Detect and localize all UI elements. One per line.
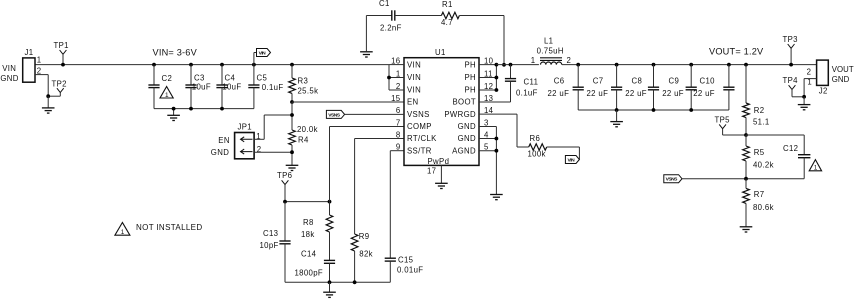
svg-text:22 uF: 22 uF bbox=[693, 89, 715, 98]
wire input cap ground rail bbox=[154, 108, 254, 110]
svg-text:SS/TR: SS/TR bbox=[407, 146, 432, 155]
svg-text:COMP: COMP bbox=[407, 122, 432, 131]
svg-text:8: 8 bbox=[396, 130, 401, 139]
svg-text:TP3: TP3 bbox=[783, 35, 798, 44]
svg-text:20.0k: 20.0k bbox=[297, 125, 318, 134]
connector J1 bbox=[23, 58, 35, 82]
svg-text:VOUT= 1.2V: VOUT= 1.2V bbox=[709, 47, 764, 57]
svg-text:GND: GND bbox=[0, 74, 18, 83]
resistor R4 bbox=[291, 102, 293, 130]
capacitor C8 bbox=[652, 63, 656, 67]
connector J2 bbox=[817, 60, 829, 85]
svg-text:1: 1 bbox=[121, 229, 125, 236]
svg-text:VIN: VIN bbox=[259, 50, 267, 56]
svg-text:3: 3 bbox=[484, 118, 489, 127]
net flag VIN at C5 bbox=[253, 53, 255, 65]
svg-text:0.1uF: 0.1uF bbox=[262, 83, 284, 92]
svg-text:R7: R7 bbox=[754, 190, 765, 199]
U1 GND pin stubs 3 4 5 bbox=[479, 126, 496, 128]
svg-text:VOUT: VOUT bbox=[832, 65, 854, 74]
resistor R1 bbox=[441, 12, 459, 18]
svg-text:VIN: VIN bbox=[407, 61, 421, 70]
svg-text:GND: GND bbox=[832, 75, 850, 84]
svg-text:1800pF: 1800pF bbox=[295, 269, 324, 278]
svg-text:C12: C12 bbox=[783, 144, 798, 153]
svg-text:40.2k: 40.2k bbox=[753, 161, 774, 170]
capacitor C13 bbox=[284, 202, 286, 241]
svg-text:R1: R1 bbox=[442, 0, 453, 9]
resistor R7 bbox=[745, 179, 747, 189]
svg-text:10uF: 10uF bbox=[222, 83, 241, 92]
svg-text:15: 15 bbox=[391, 94, 401, 103]
svg-text:VSNS: VSNS bbox=[407, 110, 430, 119]
wire PH node to L1 bbox=[496, 64, 539, 66]
resistor R2 bbox=[744, 63, 748, 67]
capacitor C11 boot bbox=[509, 63, 513, 67]
svg-text:JP1: JP1 bbox=[238, 122, 253, 131]
capacitor C10 bbox=[727, 63, 731, 67]
svg-text:4: 4 bbox=[484, 130, 489, 139]
svg-text:C10: C10 bbox=[700, 76, 716, 85]
svg-text:C11: C11 bbox=[524, 77, 539, 86]
wire COMP pin 7 to R8 bbox=[330, 126, 405, 128]
svg-text:22 uF: 22 uF bbox=[625, 89, 647, 98]
svg-text:1: 1 bbox=[37, 56, 42, 65]
svg-text:RT/CLK: RT/CLK bbox=[407, 134, 437, 143]
svg-text:0.01uF: 0.01uF bbox=[397, 266, 423, 275]
wire TP6 to R8 top bbox=[285, 201, 330, 203]
wire JP1 pin 1 to EN node bbox=[254, 138, 264, 140]
svg-text:17: 17 bbox=[427, 166, 436, 175]
svg-text:2: 2 bbox=[567, 56, 572, 65]
note triangle 1 at C12 bbox=[809, 160, 821, 171]
capacitor C9 bbox=[689, 63, 693, 67]
ground at C1 bbox=[360, 51, 373, 53]
note triangle 1 NOT INSTALLED bbox=[115, 223, 130, 236]
svg-text:10pF: 10pF bbox=[260, 241, 279, 250]
svg-text:VIN: VIN bbox=[567, 157, 575, 163]
svg-text:C7: C7 bbox=[593, 76, 604, 85]
svg-text:GND: GND bbox=[458, 122, 476, 131]
capacitor C3 bbox=[189, 63, 193, 67]
wire EN net to pin 15 bbox=[290, 100, 294, 104]
ground at input caps bbox=[173, 109, 175, 116]
svg-text:25.5k: 25.5k bbox=[298, 86, 319, 95]
net flag VSNS at pin 6 bbox=[326, 110, 344, 118]
wire ground to C1 bbox=[365, 16, 367, 52]
wire J2 pin 1 to ground bbox=[804, 78, 817, 80]
svg-text:VSNS: VSNS bbox=[666, 177, 679, 183]
svg-text:9: 9 bbox=[396, 143, 401, 152]
svg-text:TP4: TP4 bbox=[783, 76, 799, 85]
svg-text:VIN= 3-6V: VIN= 3-6V bbox=[153, 48, 198, 58]
svg-text:R8: R8 bbox=[303, 218, 314, 227]
svg-text:7: 7 bbox=[396, 118, 401, 127]
svg-text:L1: L1 bbox=[544, 37, 553, 46]
svg-text:R5: R5 bbox=[754, 148, 765, 157]
capacitor C4 bbox=[220, 63, 224, 67]
svg-text:C5: C5 bbox=[257, 73, 268, 82]
ground below R7 bbox=[740, 226, 753, 228]
arrow JP1 pin 2 bbox=[241, 149, 253, 154]
svg-text:C4: C4 bbox=[225, 73, 236, 82]
svg-text:C1: C1 bbox=[379, 0, 390, 8]
capacitor C5 bbox=[252, 63, 256, 67]
svg-text:EN: EN bbox=[218, 136, 230, 145]
U1 left pin stubs VIN 16 1 2 bbox=[388, 65, 390, 90]
svg-text:PH: PH bbox=[464, 73, 476, 82]
svg-text:0.1uF: 0.1uF bbox=[516, 88, 538, 97]
svg-text:U1: U1 bbox=[435, 48, 446, 57]
svg-text:R3: R3 bbox=[298, 76, 309, 85]
svg-text:10uF: 10uF bbox=[192, 83, 211, 92]
svg-text:22 uF: 22 uF bbox=[587, 89, 609, 98]
svg-text:VIN: VIN bbox=[407, 73, 421, 82]
svg-text:AGND: AGND bbox=[452, 146, 476, 155]
svg-text:14: 14 bbox=[484, 106, 494, 115]
ground at output caps bbox=[616, 110, 618, 122]
wire VSNS flag to divider node bbox=[682, 178, 746, 180]
ground at J2 bbox=[803, 97, 805, 105]
note triangle 1 at C2 bbox=[160, 87, 173, 99]
resistor R8 bbox=[329, 202, 331, 215]
svg-text:13: 13 bbox=[484, 94, 493, 103]
svg-text:5: 5 bbox=[484, 143, 489, 152]
svg-text:R2: R2 bbox=[754, 106, 765, 115]
resistor R3 bbox=[290, 63, 294, 67]
svg-text:VSNS: VSNS bbox=[328, 112, 341, 118]
svg-text:2: 2 bbox=[396, 82, 401, 91]
capacitor C6 bbox=[576, 63, 580, 67]
svg-text:TP5: TP5 bbox=[715, 116, 731, 125]
wire VOUT rail from L1 to J2 bbox=[562, 64, 817, 66]
svg-text:J2: J2 bbox=[819, 87, 828, 96]
svg-text:C14: C14 bbox=[301, 249, 317, 258]
wire PwPd pin 17 bbox=[440, 165, 442, 183]
svg-text:C9: C9 bbox=[669, 76, 680, 85]
svg-text:1: 1 bbox=[396, 69, 401, 78]
wire SS/TR pin 9 to C15 bbox=[390, 150, 404, 152]
ground at U1 GND pins bbox=[490, 194, 503, 196]
arrow JP1 pin 1 bbox=[241, 137, 253, 142]
svg-text:R6: R6 bbox=[530, 134, 541, 143]
svg-text:1: 1 bbox=[531, 56, 536, 65]
capacitor C2 (not installed) bbox=[152, 63, 156, 67]
svg-text:R4: R4 bbox=[298, 135, 309, 144]
svg-text:PWRGD: PWRGD bbox=[444, 110, 476, 119]
svg-text:82k: 82k bbox=[359, 249, 373, 258]
svg-text:GND: GND bbox=[211, 148, 229, 157]
svg-text:C13: C13 bbox=[263, 229, 278, 238]
wire VSNS flag to pin 6 bbox=[345, 113, 404, 115]
wire VIN rail from J1 to U1 bbox=[35, 64, 389, 66]
svg-text:NOT INSTALLED: NOT INSTALLED bbox=[136, 223, 203, 232]
svg-text:C15: C15 bbox=[398, 256, 414, 265]
svg-text:0.75uH: 0.75uH bbox=[537, 46, 564, 55]
wire J1 pin 2 to ground bbox=[35, 74, 48, 76]
resistor R6 bbox=[529, 144, 547, 150]
jumper JP1 bbox=[235, 133, 255, 159]
svg-text:R9: R9 bbox=[359, 232, 370, 241]
svg-text:6: 6 bbox=[396, 106, 401, 115]
ground at PwPd bbox=[435, 182, 448, 184]
svg-text:TP1: TP1 bbox=[54, 41, 69, 50]
svg-text:4.7: 4.7 bbox=[441, 18, 453, 27]
svg-text:GND: GND bbox=[458, 134, 476, 143]
capacitor C15 bbox=[385, 257, 396, 259]
capacitor C12 (not installed) bbox=[746, 134, 804, 136]
wire R1 to PH node bbox=[459, 15, 504, 17]
svg-text:PH: PH bbox=[464, 61, 476, 70]
svg-text:2: 2 bbox=[257, 145, 262, 154]
wire JP1 pin 2 to ground node bbox=[254, 151, 292, 153]
svg-text:18k: 18k bbox=[301, 230, 315, 239]
svg-text:BOOT: BOOT bbox=[453, 98, 477, 107]
net flag VSNS at divider bbox=[664, 175, 682, 183]
U1 right PH pin stubs bbox=[479, 64, 496, 66]
op-amp U1 regulator box bbox=[404, 58, 479, 166]
svg-text:22 uF: 22 uF bbox=[662, 89, 684, 98]
capacitor C7 bbox=[615, 63, 619, 67]
svg-text:1: 1 bbox=[165, 92, 169, 99]
ground at J1 bbox=[47, 96, 49, 108]
resistor R9 bbox=[351, 234, 358, 251]
svg-text:TP6: TP6 bbox=[277, 171, 292, 180]
svg-text:2: 2 bbox=[807, 67, 812, 76]
svg-text:VIN: VIN bbox=[2, 64, 16, 73]
svg-text:C2: C2 bbox=[162, 74, 173, 83]
svg-text:PwPd: PwPd bbox=[428, 157, 450, 166]
svg-text:TP2: TP2 bbox=[52, 80, 67, 89]
svg-text:PH: PH bbox=[464, 86, 476, 95]
svg-text:EN: EN bbox=[407, 98, 419, 107]
wire C1 to R1 bbox=[395, 15, 442, 17]
ground at bottom rail bbox=[329, 282, 331, 292]
svg-text:51.1: 51.1 bbox=[753, 117, 770, 126]
wire PWRGD to R6 bbox=[479, 113, 517, 115]
wire R6 to VIN flag bbox=[547, 146, 580, 148]
net flag VIN at R6 bbox=[565, 156, 579, 164]
wire bottom rail C13-C14-R9-C15 bbox=[285, 281, 390, 283]
wire output cap ground rail bbox=[578, 109, 729, 111]
svg-text:12: 12 bbox=[484, 82, 493, 91]
svg-text:80.6k: 80.6k bbox=[753, 203, 774, 212]
svg-text:C3: C3 bbox=[194, 73, 205, 82]
svg-text:1: 1 bbox=[814, 165, 818, 172]
resistor R5 bbox=[745, 135, 747, 146]
capacitor C14 bbox=[324, 259, 335, 261]
svg-text:C8: C8 bbox=[632, 76, 643, 85]
svg-text:2.2nF: 2.2nF bbox=[380, 24, 402, 33]
svg-text:16: 16 bbox=[391, 57, 400, 66]
svg-text:C6: C6 bbox=[554, 76, 565, 85]
capacitor C1 bbox=[391, 10, 393, 20]
ground below R4 bbox=[286, 164, 299, 166]
svg-text:J1: J1 bbox=[25, 48, 34, 57]
wire RT/CLK pin 8 to R9 bbox=[355, 138, 404, 140]
svg-text:100k: 100k bbox=[528, 150, 546, 159]
svg-text:22 uF: 22 uF bbox=[548, 89, 570, 98]
svg-text:VIN: VIN bbox=[407, 86, 421, 95]
